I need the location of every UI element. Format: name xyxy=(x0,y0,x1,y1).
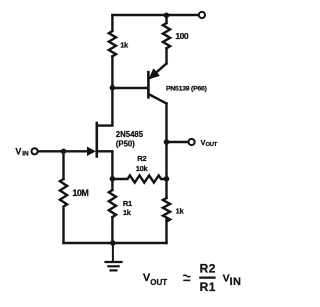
svg-text:2N5485: 2N5485 xyxy=(116,130,144,139)
JFET drain lead xyxy=(97,88,113,126)
svg-text:10k: 10k xyxy=(136,164,149,173)
resistor 100 top lead xyxy=(165,15,167,23)
JFET source lead xyxy=(97,151,113,179)
ground bar 3 xyxy=(111,269,117,271)
junction dot vin gate xyxy=(61,149,67,155)
resistor R top-left 1k xyxy=(109,31,116,56)
wire bottom rail xyxy=(64,242,167,244)
wire vin node down to 10M xyxy=(62,151,64,179)
resistor R 10M xyxy=(60,179,67,207)
wire R1 bottom to rail xyxy=(111,217,113,243)
terminal circle VOUT xyxy=(189,139,195,145)
svg-text:R2: R2 xyxy=(137,154,146,163)
wire 10M bottom lead to rail xyxy=(62,209,64,244)
resistor R2 10k horizontal xyxy=(112,175,166,182)
resistor 100 xyxy=(163,23,170,48)
wire top rail xyxy=(112,14,198,16)
transistor Q1 PN5139 emitter diagonal xyxy=(151,64,167,78)
wire collector node down to R2 node xyxy=(165,142,167,179)
transistor Q1 base bar xyxy=(147,71,150,99)
resistor 1k right top lead xyxy=(165,179,167,198)
svg-text:(P50): (P50) xyxy=(116,140,135,149)
junction dot vout node xyxy=(164,139,170,145)
wire 1k right bottom to rail xyxy=(165,220,167,244)
svg-text:1k: 1k xyxy=(176,206,185,215)
terminal circle top right xyxy=(199,12,205,18)
svg-text:R1: R1 xyxy=(123,199,132,208)
wire 1k bottom to base node xyxy=(111,56,113,88)
ground bar 2 xyxy=(108,265,118,267)
svg-text:VOUT: VOUT xyxy=(201,138,218,148)
wire 100 bottom to emitter xyxy=(165,48,167,63)
junction dot R2 right node xyxy=(164,176,170,182)
JFET Q2 gate arrowhead xyxy=(87,147,95,155)
formula approx sign xyxy=(183,275,190,280)
wire vout lead xyxy=(167,141,189,143)
resistor R1 top lead xyxy=(111,179,113,190)
svg-text:VOUT: VOUT xyxy=(143,272,167,287)
wire gate lead from vin terminal xyxy=(38,150,90,152)
svg-text:1k: 1k xyxy=(123,208,132,217)
terminal circle VIN xyxy=(31,148,37,154)
junction dot source node xyxy=(110,176,116,182)
resistor R1 1k xyxy=(109,190,116,217)
svg-text:VIN: VIN xyxy=(223,273,242,289)
svg-text:100: 100 xyxy=(175,31,188,41)
svg-text:1k: 1k xyxy=(120,41,129,50)
junction dot top rail xyxy=(164,13,170,19)
transistor Q1 collector diagonal xyxy=(149,95,166,104)
ground bar 1 xyxy=(106,261,122,263)
junction dot bottom rail xyxy=(110,240,116,246)
wire base lead xyxy=(112,87,147,89)
wire collector vertical xyxy=(165,104,167,143)
resistor 1k right xyxy=(163,198,170,221)
svg-text:R1: R1 xyxy=(200,280,216,294)
wire ground stub xyxy=(112,243,114,262)
svg-text:VIN: VIN xyxy=(15,147,29,158)
transistor Q1 emitter arrowhead xyxy=(150,69,159,78)
formula fraction bar xyxy=(199,277,215,279)
svg-text:10M: 10M xyxy=(72,188,88,198)
svg-text:PN5139 (P66): PN5139 (P66) xyxy=(166,85,207,92)
JFET Q2 channel bar xyxy=(96,123,99,157)
junction dot base node xyxy=(110,85,116,91)
svg-text:R2: R2 xyxy=(200,261,216,275)
wire left vertical top lead xyxy=(111,15,113,31)
